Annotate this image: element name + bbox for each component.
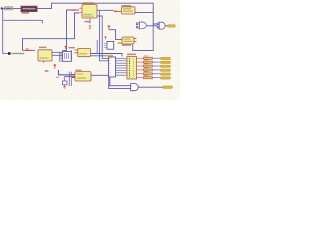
component U8 (navy outline block mid-right) bbox=[107, 42, 114, 50]
IC U7 (small, x122) bbox=[122, 37, 134, 44]
capacitor C1 bbox=[63, 77, 65, 81]
node: input port dot bbox=[1, 7, 3, 9]
wire: gate U6 output bbox=[165, 25, 168, 27]
net label at U6 output bbox=[168, 25, 176, 27]
wire: power rail to U9 bbox=[59, 70, 76, 75]
wire: IC1 pin1 net down to T1 bbox=[63, 10, 80, 51]
connector J1 bbox=[127, 57, 137, 80]
wire: port down the left side to LOGICSTATE bbox=[3, 9, 8, 53]
wire: gate U11 output bbox=[138, 86, 162, 88]
wire: port branch right at y20.3 down at x42.3 bbox=[3, 20, 43, 23]
gate U5 (negative-input OR) bbox=[136, 22, 146, 29]
wire: U5mid left pin vertical down to bottom area bbox=[70, 50, 72, 60]
resistor R1 row bbox=[137, 57, 144, 59]
pin arrows into U5mid bbox=[75, 50, 79, 53]
wire: U2 out to right, to U3 pins, with branch down at x=100 bbox=[97, 9, 114, 11]
resistor value texts bbox=[144, 56, 149, 76]
wire: U9 out right bbox=[91, 74, 109, 76]
power flag left bottom bbox=[54, 65, 57, 69]
component U10 (white block left of connector) bbox=[109, 57, 116, 77]
yellow label right of U8 bbox=[118, 42, 123, 44]
U9 ref text above bbox=[76, 70, 82, 71]
U2 ref text above bbox=[83, 2, 95, 4]
pin arrows into U9 bbox=[72, 75, 75, 78]
net label at U11 output bbox=[163, 86, 173, 88]
wire: U3 out right bbox=[135, 11, 153, 13]
resistor R5 row bbox=[137, 73, 144, 75]
wire: IC1 feedback net (left pin 2 down and across to U4) bbox=[23, 13, 80, 50]
pin arrow into U4 bbox=[25, 49, 32, 51]
J1 ref text above bbox=[127, 54, 136, 56]
U10 to connector wires bbox=[116, 58, 128, 75]
wire: gate U5 out to gate U6 bbox=[147, 25, 157, 27]
wire: port to label to crystal bbox=[3, 7, 21, 9]
resistor R3 row bbox=[137, 65, 144, 67]
wires into gate U11 (bottom) bbox=[109, 77, 131, 89]
verticals left of U9 bbox=[69, 72, 71, 86]
U4 bottom stub bbox=[43, 61, 45, 63]
crystal value label bbox=[22, 12, 30, 13]
pin arrow into U2 bbox=[72, 9, 80, 11]
op IC U2 (top middle) bbox=[82, 5, 97, 19]
ground below C1 bbox=[63, 85, 66, 88]
component T1 (navy outline block) bbox=[63, 51, 72, 61]
resistor R2 row bbox=[137, 61, 144, 63]
pin arrow into U3 bbox=[114, 10, 122, 12]
power flag mid right bbox=[108, 26, 111, 30]
crystal X1 bbox=[21, 6, 37, 11]
U3 ref text above bbox=[122, 5, 132, 6]
IC U4 (mid left) bbox=[38, 50, 52, 61]
yellow net label text on mid wire bbox=[106, 55, 113, 57]
LOGICSTATE probe bbox=[8, 52, 11, 55]
IC U3 (top right small) bbox=[122, 7, 136, 14]
IC U9 (bottom) bbox=[75, 72, 91, 81]
wire: crystal out, up to top rail, across to right, down to gate U6 bbox=[37, 3, 157, 24]
background bbox=[0, 0, 180, 100]
U7 text below bbox=[122, 44, 131, 45]
U2 bottom power stub bbox=[89, 18, 91, 24]
wires U4 right to T1 bbox=[52, 51, 63, 53]
label box (input terminal) bbox=[4, 7, 12, 10]
IC U5 (middle) bbox=[78, 48, 91, 56]
gate U6 (AND with inverted inputs) bbox=[157, 22, 165, 29]
red text label bbox=[45, 70, 49, 71]
power flag above T1 bbox=[64, 46, 66, 49]
gate U11 bbox=[131, 84, 139, 91]
resistor rows with net labels bbox=[137, 57, 171, 79]
U5mid ref text above bbox=[69, 47, 76, 48]
wire: power to U7 bbox=[109, 30, 122, 40]
power flag above U8 bbox=[104, 37, 106, 39]
resistor R4 row bbox=[137, 69, 144, 71]
U4 ref text above bbox=[39, 47, 47, 49]
U7 right pins bbox=[134, 39, 137, 42]
mid bus wires to the right bbox=[91, 54, 123, 57]
resistor R6 row bbox=[137, 77, 144, 79]
wire: U7 bottom loop to gate net bbox=[133, 24, 154, 51]
